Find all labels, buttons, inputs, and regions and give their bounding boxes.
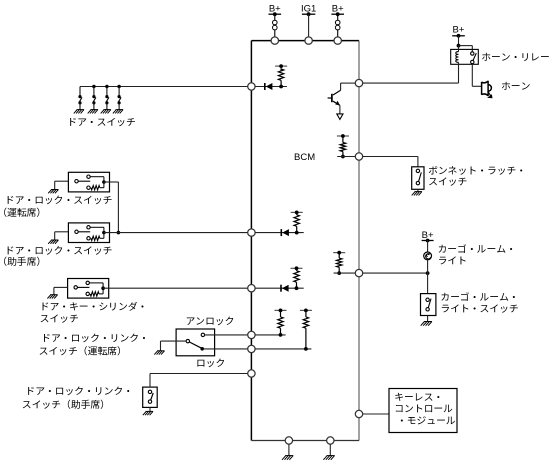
resistor R3 bbox=[294, 271, 299, 283]
cargo room lamp bbox=[424, 252, 432, 260]
wire to keyless module bbox=[363, 413, 389, 415]
svg-text:・モジュール: ・モジュール bbox=[397, 413, 456, 427]
junction dot (relay feed) bbox=[457, 44, 461, 48]
relay coil bbox=[458, 46, 460, 52]
fusible link F1 bbox=[274, 14, 276, 20]
wire ground 2 bbox=[329, 444, 331, 455]
junction dot (bonnet row) bbox=[341, 155, 345, 159]
pin connector (keyless link) bbox=[355, 410, 362, 417]
pin connector (IG1) bbox=[305, 37, 312, 44]
B+ terminal bar bbox=[269, 13, 282, 15]
svg-text:ホーン: ホーン bbox=[501, 78, 531, 92]
svg-text:スイッチ: スイッチ bbox=[428, 174, 467, 188]
wire row E internal bbox=[255, 348, 311, 350]
svg-text:ライト・スイッチ: ライト・スイッチ bbox=[440, 301, 519, 315]
relay contact top bbox=[471, 52, 474, 55]
ground (link switch driver) bbox=[157, 350, 164, 352]
door switch SW1 (plunger contact to ground) bbox=[79, 87, 81, 96]
ground (link switch passenger) bbox=[146, 410, 153, 412]
wire feed to relay contact bbox=[459, 45, 473, 47]
lock contact dot bbox=[200, 347, 204, 351]
door switch SW2 (plunger contact to ground) bbox=[92, 85, 95, 88]
relay switch arm bbox=[473, 53, 476, 61]
wire door-lock passenger ground lead bbox=[55, 231, 69, 233]
BCM module box top edge bbox=[251, 40, 359, 42]
svg-text:ドア・スイッチ: ドア・スイッチ bbox=[67, 114, 136, 128]
wire relay coil to BCM bbox=[458, 62, 460, 83]
door lock switch (driver) box bbox=[68, 172, 109, 192]
switch arm (link passenger) bbox=[151, 393, 154, 400]
ground (door key cylinder switch) bbox=[50, 294, 57, 296]
keyless control module box bbox=[389, 389, 457, 433]
pin connector (key cylinder input) bbox=[248, 285, 255, 292]
switch arm (link driver) bbox=[189, 342, 201, 348]
cargo switch arm bbox=[428, 299, 431, 308]
svg-text:アンロック: アンロック bbox=[185, 314, 234, 328]
wire unlock contact to BCM bbox=[205, 334, 248, 336]
diode D3 bbox=[280, 285, 282, 292]
B+ terminal bar (cargo) bbox=[422, 240, 434, 242]
wire row D internal bbox=[255, 334, 286, 336]
wire emitter bbox=[339, 105, 341, 114]
junction dot (cargo row) bbox=[337, 271, 341, 275]
pin connector (bonnet latch input) bbox=[355, 153, 362, 160]
bonnet switch arm bbox=[419, 172, 422, 181]
B+ terminal bar (horn relay) bbox=[452, 35, 465, 37]
svg-text:スイッチ（運転席）: スイッチ（運転席） bbox=[39, 343, 127, 357]
svg-text:（運転席）: （運転席） bbox=[0, 205, 46, 219]
resistor R5 bbox=[303, 317, 308, 328]
pin connector (door switch input) bbox=[248, 83, 255, 90]
wire link passenger to ground bbox=[149, 407, 151, 411]
wire door-switch bus bbox=[80, 86, 248, 88]
pin connector (ground 2) bbox=[327, 437, 334, 444]
door lock link switch (driver) box bbox=[176, 329, 215, 356]
junction dot row A bbox=[279, 85, 283, 89]
terminal (R4 pull-up) bbox=[275, 309, 287, 311]
wire key-cylinder output to BCM bbox=[103, 287, 248, 289]
wire ground 1 bbox=[288, 444, 290, 455]
wire bonnet row internal bbox=[337, 156, 355, 158]
svg-text:スイッチ（助手席）: スイッチ（助手席） bbox=[22, 397, 110, 411]
wire lock contact to BCM bbox=[204, 348, 248, 350]
ground (bonnet latch switch) bbox=[415, 191, 422, 193]
wire row A internal bbox=[255, 86, 287, 88]
link passenger bottom contact bbox=[148, 400, 151, 403]
svg-text:ロック: ロック bbox=[196, 355, 225, 369]
ground (door lock switch driver) bbox=[51, 189, 58, 191]
pin connector (B+ right) bbox=[334, 37, 341, 44]
wire lamp to junction bbox=[427, 260, 429, 273]
pin connector (door lock input) bbox=[248, 229, 255, 236]
svg-text:BCM: BCM bbox=[294, 152, 315, 163]
junction dot row C bbox=[295, 286, 299, 290]
wire common to ground (link driver) bbox=[161, 340, 187, 342]
ground (BCM 2) bbox=[327, 455, 335, 457]
junction dot (driver/passenger outputs) bbox=[117, 231, 121, 235]
wire to cargo junction bbox=[363, 272, 428, 274]
wire relay contact to horn bbox=[471, 64, 473, 87]
BCM module box left edge bbox=[250, 41, 252, 441]
resistor R2 bbox=[294, 215, 299, 227]
open arrow (emitter to ground path) bbox=[337, 114, 343, 120]
terminal (R3 pull-up) bbox=[291, 267, 303, 269]
svg-text:スイッチ: スイッチ bbox=[40, 311, 79, 325]
pin connector (ground 1) bbox=[285, 437, 292, 444]
svg-text:ホーン・リレー: ホーン・リレー bbox=[481, 50, 550, 64]
resistor R7 (cargo input pull-up) bbox=[337, 258, 342, 267]
transistor Q1 bbox=[333, 90, 341, 95]
horn (sounder symbol) bbox=[482, 81, 492, 96]
wire junction to cargo switch bbox=[427, 273, 429, 294]
door switch SW4 (plunger contact to ground) bbox=[117, 85, 120, 88]
wire door-lock outputs to BCM bbox=[104, 232, 248, 234]
fusible link F2 bbox=[337, 14, 339, 20]
svg-text:ライト: ライト bbox=[438, 253, 467, 267]
ground (cargo light switch) bbox=[424, 321, 432, 323]
unlock contact bbox=[201, 333, 204, 336]
wire to bonnet latch switch bbox=[363, 156, 418, 158]
terminal (R2 pull-up) bbox=[291, 211, 303, 213]
BCM module box bottom edge bbox=[251, 440, 359, 442]
pin connector (horn output) bbox=[355, 79, 362, 86]
terminal (R1 pull-up) bbox=[275, 65, 287, 67]
link passenger top contact bbox=[148, 390, 151, 393]
door switch SW3 (plunger contact to ground) bbox=[105, 85, 108, 88]
wire bonnet switch to ground bbox=[417, 189, 419, 191]
junction dot row E bbox=[304, 347, 308, 351]
cargo switch top contact bbox=[426, 298, 429, 301]
resistor R4 bbox=[278, 317, 283, 328]
horn relay box bbox=[451, 49, 479, 64]
terminal (R6 pull-up) bbox=[337, 135, 349, 137]
wire B+ to relay bbox=[458, 36, 460, 46]
pin connector (unlock input) bbox=[248, 331, 255, 338]
pin connector (lock input) bbox=[248, 345, 255, 352]
wire key-cylinder ground lead bbox=[54, 286, 68, 288]
wire door-lock driver ground lead bbox=[55, 180, 69, 182]
wire collector bbox=[341, 82, 356, 84]
pin connector (cargo light input) bbox=[355, 269, 362, 276]
relay contact bottom bbox=[471, 60, 474, 63]
door key cylinder switch box bbox=[68, 279, 109, 299]
wire B+ to cargo lamp bbox=[427, 241, 429, 253]
junction dot (cargo light) bbox=[426, 271, 430, 275]
bonnet latch switch box bbox=[412, 167, 424, 190]
wire IG1 to BCM bbox=[308, 14, 310, 37]
BCM module box right edge bbox=[358, 41, 360, 441]
IG1 terminal bar bbox=[302, 13, 315, 15]
pin connector (link passenger input) bbox=[248, 370, 255, 377]
cargo switch bottom contact bbox=[426, 308, 429, 311]
ground (BCM 1) bbox=[285, 455, 293, 457]
wire cargo switch to ground bbox=[427, 316, 429, 322]
terminal (R5 pull-up) bbox=[300, 309, 312, 311]
wire link passenger to BCM bbox=[149, 374, 151, 388]
svg-text:ドア・ロック・リンク・: ドア・ロック・リンク・ bbox=[41, 330, 149, 344]
ground (door lock switch passenger) bbox=[51, 239, 58, 241]
terminal (R7 pull-up) bbox=[333, 252, 345, 254]
resistor R1 bbox=[280, 68, 282, 70]
wire row B internal bbox=[255, 232, 304, 234]
bonnet switch bottom contact bbox=[416, 181, 419, 184]
resistor R6 (bonnet input pull-up) bbox=[340, 143, 345, 152]
bonnet switch top contact bbox=[416, 169, 419, 172]
svg-text:（助手席）: （助手席） bbox=[0, 254, 46, 268]
cargo light switch box bbox=[421, 294, 436, 316]
pin connector (B+ left) bbox=[271, 37, 278, 44]
wire door-lock driver output bbox=[104, 181, 119, 183]
diode D2 bbox=[280, 229, 282, 236]
junction dot row B bbox=[295, 231, 299, 235]
common contact (link switch driver) bbox=[186, 339, 189, 342]
wire row C internal bbox=[255, 287, 304, 289]
ground arrow (horn) bbox=[488, 92, 491, 96]
door lock link switch (passenger) box bbox=[143, 387, 158, 407]
diode D1 bbox=[264, 83, 266, 90]
junction dot row D bbox=[279, 333, 283, 337]
door lock switch (passenger) box bbox=[68, 223, 109, 243]
svg-text:ドア・ロック・リンク・: ドア・ロック・リンク・ bbox=[25, 383, 133, 397]
wire cargo row internal bbox=[334, 272, 356, 274]
B+ terminal bar 2 bbox=[331, 13, 344, 15]
